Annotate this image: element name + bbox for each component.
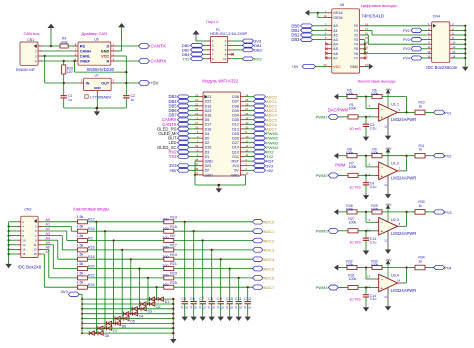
svg-text:D10: D10 [232,150,239,154]
svg-text:GND: GND [94,86,102,90]
svg-text:Порт C: Порт C [206,19,219,24]
svg-text:100k: 100k [349,107,357,111]
svg-text:GND: GND [350,65,358,69]
svg-text:ADC6: ADC6 [264,276,275,281]
svg-text:3V3: 3V3 [205,164,212,168]
svg-text:PV2: PV2 [403,38,410,42]
svg-text:4: 4 [35,59,37,63]
svg-text:1.5k: 1.5k [76,225,83,229]
svg-text:ADC0: ADC0 [264,220,275,225]
svg-text:VCC: VCC [101,54,109,58]
svg-text:0.1u: 0.1u [208,305,215,309]
svg-text:+5V: +5V [385,259,392,263]
svg-text:VREF: VREF [80,59,91,63]
svg-text:LM324APWR: LM324APWR [391,288,416,293]
svg-text:DB3: DB3 [291,37,300,42]
svg-text:CN4: CN4 [433,15,440,19]
svg-text:–: – [381,107,383,111]
svg-text:1.5k: 1.5k [76,253,83,257]
svg-text:100k: 100k [346,92,354,96]
svg-text:16: 16 [22,252,26,256]
svg-text:11: 11 [34,243,37,247]
svg-text:100k: 100k [346,207,354,211]
svg-text:D38: D38 [232,104,239,108]
svg-text:+5V: +5V [385,203,392,207]
svg-text:LT7805ABV: LT7805ABV [90,95,112,100]
svg-text:R18: R18 [88,255,95,259]
svg-text:D4: D4 [205,132,210,136]
svg-text:Модуль WIFI K322: Модуль WIFI K322 [202,79,238,84]
svg-text:D36: D36 [232,95,239,99]
svg-text:10: 10 [367,228,371,232]
svg-text:15: 15 [427,54,431,58]
svg-text:R3: R3 [170,234,175,238]
svg-text:PWM2: PWM2 [316,173,329,178]
svg-text:CANTX: CANTX [151,44,166,49]
svg-text:GND: GND [231,173,240,177]
svg-text:R22: R22 [88,274,95,278]
svg-text:5V: 5V [205,169,210,173]
svg-text:D1: D1 [165,300,169,304]
svg-text:100k: 100k [371,92,379,96]
svg-text:R17: R17 [170,244,177,248]
svg-text:R14: R14 [88,227,95,231]
svg-text:D18: D18 [205,114,212,118]
svg-text:1k: 1k [419,104,423,108]
svg-text:–: – [381,221,383,225]
svg-text:U1.1: U1.1 [391,103,399,107]
svg-text:Y0: Y0 [354,24,358,28]
svg-text:CANL: CANL [80,54,91,58]
svg-text:TX2: TX2 [169,154,177,159]
svg-text:13: 13 [33,248,37,252]
svg-text:A5: A5 [333,47,337,51]
svg-text:+5V: +5V [266,168,274,173]
svg-text:100k: 100k [346,151,354,155]
svg-text:1.5k: 1.5k [76,234,83,238]
svg-text:+: + [381,230,383,234]
svg-text:R16: R16 [88,246,95,250]
svg-text:D27: D27 [232,141,239,145]
svg-text:0.1u: 0.1u [370,297,377,301]
svg-text:Драйвер CAN: Драйвер CAN [82,31,108,36]
svg-text:PWM3: PWM3 [316,228,329,233]
svg-text:RS: RS [80,44,86,48]
svg-text:D22: D22 [205,100,212,104]
svg-text:U1.2: U1.2 [391,162,399,166]
svg-text:–: – [381,165,383,169]
svg-text:10: 10 [223,57,227,61]
svg-text:A3: A3 [46,232,51,236]
svg-text:120: 120 [67,70,73,74]
svg-text:12: 12 [22,243,26,247]
svg-text:U7: U7 [95,74,99,78]
svg-text:D37: D37 [232,100,239,104]
svg-text:100k: 100k [371,151,379,155]
svg-text:300: 300 [162,246,168,250]
svg-text:R20: R20 [88,264,95,268]
svg-text:D4: D4 [139,315,143,319]
svg-text:+: + [381,174,383,178]
svg-text:D12: D12 [232,123,239,127]
svg-text:D16: D16 [205,127,212,131]
svg-text:GND: GND [101,49,110,53]
svg-text:0.1u: 0.1u [370,241,377,245]
svg-text:R13: R13 [170,215,177,219]
svg-text:PV4: PV4 [403,56,410,60]
svg-text:D2: D2 [156,305,160,309]
svg-text:0.1u: 0.1u [235,305,242,309]
svg-text:IN: IN [86,82,90,86]
svg-text:300: 300 [162,274,168,278]
svg-text:PWM: PWM [335,162,346,167]
svg-text:1.5k: 1.5k [76,215,83,219]
svg-text:Y6: Y6 [354,52,358,56]
svg-text:D8: D8 [105,334,109,338]
svg-text:1u: 1u [131,98,135,102]
svg-text:1k: 1k [419,148,423,152]
svg-text:A2: A2 [46,227,51,231]
svg-text:0.1u: 0.1u [190,305,197,309]
svg-text:1.5k: 1.5k [76,281,83,285]
svg-text:3: 3 [35,54,37,58]
svg-text:D3: D3 [205,150,210,154]
svg-text:ADC2: ADC2 [264,238,275,243]
svg-text:A3: A3 [333,38,337,42]
svg-text:C5: C5 [181,297,186,301]
svg-text:C7: C7 [199,297,204,301]
svg-text:IDC Box2X8core: IDC Box2X8core [426,65,458,70]
svg-text:LM324APWR: LM324APWR [391,176,416,181]
svg-text:0.1u: 0.1u [370,185,377,189]
svg-text:DB3: DB3 [254,48,263,53]
svg-text:0.1u: 0.1u [370,127,377,131]
svg-text:DAC/PWM: DAC/PWM [328,107,349,112]
svg-text:OE1#: OE1# [333,11,342,15]
svg-text:Y2: Y2 [354,33,358,37]
svg-text:A6: A6 [333,52,337,56]
svg-text:300: 300 [162,236,168,240]
svg-text:U3.4: U3.4 [391,273,399,277]
svg-text:D7: D7 [113,329,117,333]
svg-text:D: D [106,44,109,48]
svg-text:TX2: TX2 [182,56,190,61]
svg-text:PV2: PV2 [444,155,451,159]
svg-text:11: 11 [427,45,430,49]
svg-text:D5: D5 [205,118,210,122]
svg-text:14: 14 [22,248,26,252]
svg-text:PV4: PV4 [444,267,451,271]
svg-text:100k: 100k [371,263,379,267]
svg-text:1k: 1k [419,204,423,208]
svg-text:10 mS: 10 mS [349,184,361,189]
svg-text:2: 2 [35,49,37,53]
svg-text:+5V: +5V [292,65,299,69]
svg-text:Y5: Y5 [354,47,358,51]
svg-text:A5: A5 [46,241,51,245]
svg-text:D0: D0 [205,137,210,141]
svg-text:A0: A0 [46,218,51,222]
svg-text:10: 10 [22,238,26,242]
svg-text:ADC3: ADC3 [264,248,275,253]
svg-text:0.1u: 0.1u [244,305,251,309]
svg-text:HDR-IDC-2.54-2X5P: HDR-IDC-2.54-2X5P [210,31,247,36]
svg-text:10 mS: 10 mS [349,296,361,301]
svg-text:GND: GND [205,173,214,177]
svg-text:D13: D13 [232,127,239,131]
svg-text:OE2#: OE2# [333,16,342,20]
svg-text:100k: 100k [349,165,357,169]
svg-text:D23: D23 [205,109,212,113]
svg-text:RX2: RX2 [254,56,263,61]
svg-text:D2: D2 [205,141,210,145]
svg-text:CANH: CANH [80,49,91,53]
svg-text:C10: C10 [226,297,233,301]
svg-text:+5V: +5V [385,147,392,151]
svg-text:A4: A4 [333,43,337,47]
svg-text:RST: RST [232,160,240,164]
svg-text:R19: R19 [170,253,177,257]
svg-text:15: 15 [33,252,37,256]
svg-text:300: 300 [162,217,168,221]
svg-text:0.1u: 0.1u [217,305,224,309]
svg-text:D19: D19 [205,104,212,108]
svg-text:PV3: PV3 [444,211,451,215]
svg-text:D3: D3 [148,310,152,314]
svg-text:D34: D34 [232,114,239,118]
svg-text:C12: C12 [244,297,251,301]
svg-text:PV3: PV3 [403,47,410,51]
svg-text:U6: U6 [94,38,98,42]
svg-text:1.5k: 1.5k [76,262,83,266]
svg-text:A4: A4 [46,236,51,240]
svg-text:14: 14 [397,279,401,283]
svg-text:5V: 5V [234,169,239,173]
svg-text:Y7: Y7 [354,56,358,60]
svg-text:VCC: VCC [333,65,341,69]
svg-text:3V3: 3V3 [232,164,239,168]
svg-text:0.1u: 0.1u [199,305,206,309]
svg-text:12: 12 [367,285,371,289]
svg-text:R12: R12 [88,218,95,222]
svg-text:D15: D15 [205,146,212,150]
svg-text:SN65HVD230: SN65HVD230 [87,67,115,72]
svg-text:1.5k: 1.5k [76,271,83,275]
svg-text:Цифровые выходы: Цифровые выходы [361,3,397,8]
svg-text:+5V: +5V [151,81,159,86]
svg-text:100k: 100k [349,220,357,224]
svg-text:10 mS: 10 mS [349,240,361,245]
svg-text:CN2: CN2 [24,207,31,211]
svg-text:D17: D17 [205,123,212,127]
svg-text:CAN bus: CAN bus [24,31,40,36]
svg-text:LM324APWR: LM324APWR [391,117,416,122]
svg-text:D39: D39 [232,109,239,113]
svg-text:IDC Box2X8: IDC Box2X8 [18,264,42,269]
svg-text:D35: D35 [232,118,239,122]
svg-text:D11: D11 [232,155,239,159]
svg-text:300: 300 [162,227,168,231]
svg-text:A7: A7 [46,250,51,254]
svg-text:13: 13 [367,275,371,279]
svg-text:74HC541D: 74HC541D [361,14,384,19]
svg-text:R: R [106,59,109,63]
svg-text:C11: C11 [235,297,241,301]
svg-text:300: 300 [162,255,168,259]
svg-text:+5V: +5V [385,88,392,92]
svg-text:D5: D5 [130,319,134,323]
svg-text:Y4: Y4 [354,43,358,47]
svg-text:D14: D14 [232,146,239,150]
svg-text:+: + [381,116,383,120]
svg-text:C9: C9 [217,297,222,301]
svg-text:PV1: PV1 [403,29,410,33]
svg-text:A2: A2 [333,33,337,37]
svg-text:+: + [381,286,383,290]
svg-text:CANRX: CANRX [151,59,167,64]
svg-text:A0: A0 [333,24,337,28]
svg-text:D1: D1 [205,155,210,159]
svg-text:D25: D25 [232,132,239,136]
svg-text:R21: R21 [170,262,177,266]
svg-text:3V3: 3V3 [61,289,69,294]
svg-text:PWM1: PWM1 [316,114,329,119]
svg-text:R24: R24 [88,283,95,287]
svg-text:Y3: Y3 [354,38,358,42]
svg-text:EK508V-04P: EK508V-04P [16,68,36,72]
svg-text:R25: R25 [170,281,177,285]
svg-text:LM324APWR: LM324APWR [391,231,416,236]
svg-text:A7: A7 [333,56,337,60]
svg-text:PV1: PV1 [444,111,451,115]
svg-text:C8: C8 [208,297,213,301]
svg-text:GND: GND [205,160,214,164]
svg-text:OUT: OUT [101,82,110,86]
svg-text:C6: C6 [190,297,195,301]
svg-text:ADC4: ADC4 [264,257,275,262]
svg-text:100k: 100k [60,40,68,44]
svg-text:PWM4: PWM4 [316,285,329,290]
svg-text:ADC1: ADC1 [264,229,275,234]
svg-text:100k: 100k [349,277,357,281]
svg-text:D6: D6 [122,324,126,328]
svg-text:D26: D26 [232,137,239,141]
svg-text:Аналоговые выходы: Аналоговые выходы [358,79,396,84]
svg-text:1k: 1k [419,259,423,263]
svg-text:0.1u: 0.1u [226,305,233,309]
svg-text:CN1: CN1 [27,38,34,42]
svg-text:10 mS: 10 mS [349,126,361,131]
svg-text:A1: A1 [333,29,337,33]
svg-text:R2: R2 [88,236,93,240]
svg-text:R23: R23 [170,272,177,276]
svg-text:Аналоговые входы: Аналоговые входы [73,207,109,212]
svg-text:Y1: Y1 [354,29,358,33]
svg-text:R15: R15 [170,225,177,229]
svg-text:1u: 1u [68,98,72,102]
svg-text:0.1u: 0.1u [181,305,188,309]
svg-text:–: – [381,277,383,281]
svg-text:U8: U8 [340,3,344,7]
svg-text:300: 300 [162,283,168,287]
svg-text:100k: 100k [371,207,379,211]
svg-text:13: 13 [427,50,431,54]
svg-text:+5V: +5V [169,168,177,173]
svg-text:300: 300 [162,264,168,268]
svg-text:ADC7: ADC7 [264,285,275,290]
svg-text:ADC5: ADC5 [264,266,275,271]
svg-text:100k: 100k [346,263,354,267]
svg-text:1.5k: 1.5k [76,243,83,247]
